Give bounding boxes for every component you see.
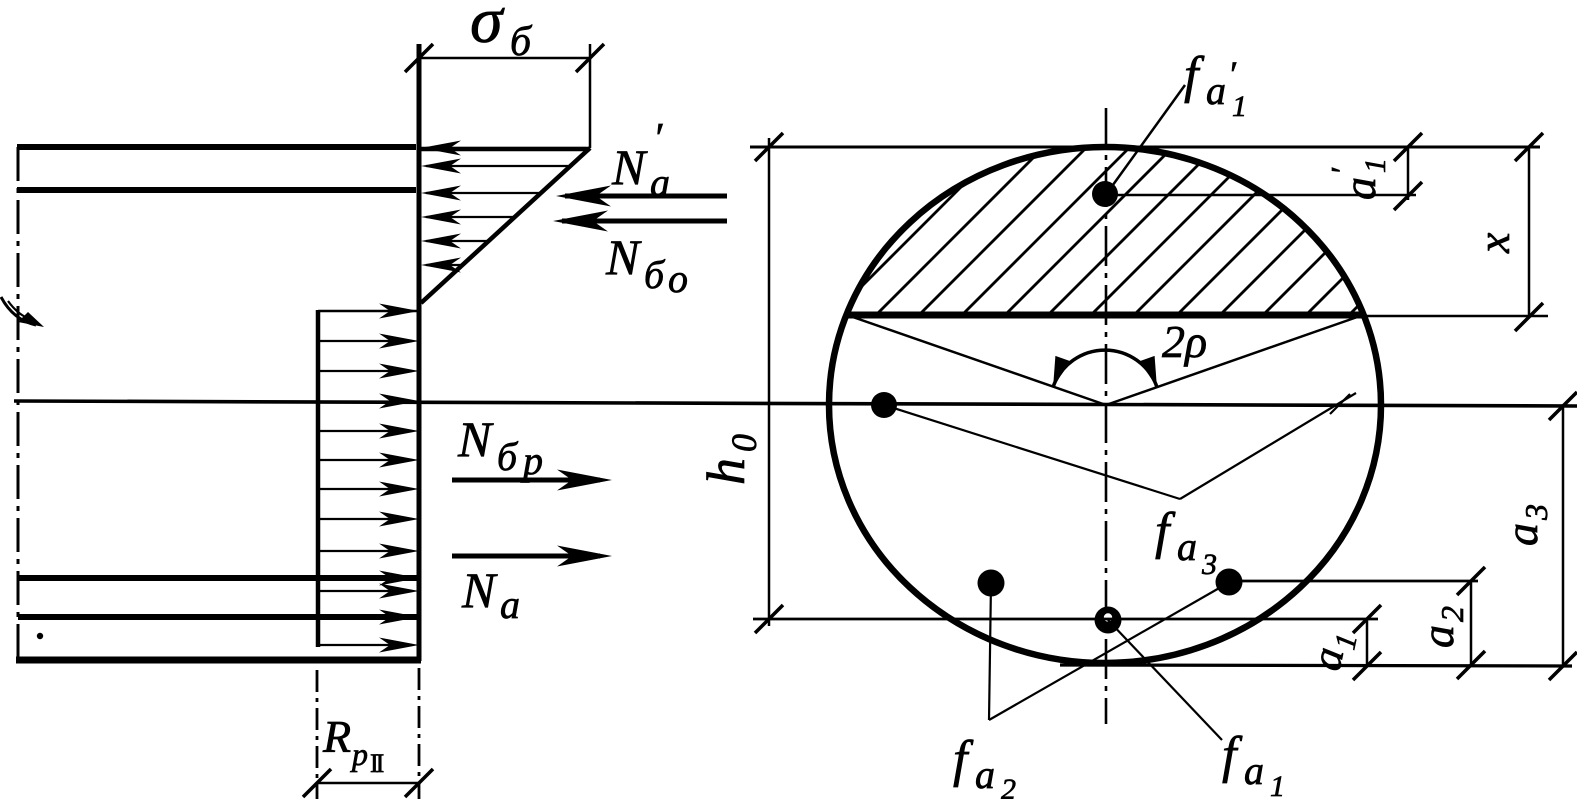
beam lower reinforcement line 2	[18, 614, 419, 620]
svg-text:f: f	[1222, 727, 1243, 784]
beam lower reinforcement line 1	[18, 575, 419, 581]
svg-text:о: о	[668, 256, 688, 301]
stress arrow (block) 5	[318, 488, 412, 490]
dimension a1: bottom tick	[1353, 652, 1381, 680]
dimension R_pII: right tick	[405, 769, 433, 797]
dimension a2: bottom tick	[1457, 651, 1485, 679]
dimension sigma_b: left tick	[405, 44, 433, 72]
svg-text:f: f	[1155, 503, 1176, 560]
svg-text:N: N	[457, 411, 494, 467]
stress arrow (triangle) 2	[426, 165, 568, 167]
vertical centre line of section	[1105, 108, 1108, 724]
stress arrow (triangle) 4	[426, 216, 514, 218]
force arrow N_bo	[562, 219, 727, 224]
force arrow N_br	[452, 478, 600, 483]
svg-text:N: N	[605, 229, 642, 285]
svg-text:a: a	[1496, 523, 1547, 546]
svg-text:a: a	[1244, 748, 1264, 793]
label a3	[1496, 504, 1554, 546]
svg-text:a: a	[1412, 625, 1463, 648]
force arrow N'a	[565, 194, 727, 199]
dimension a2: top tick	[1457, 567, 1485, 595]
compression triangle hypotenuse	[421, 148, 590, 303]
radius line to right chord end	[1106, 315, 1363, 405]
dimension a3: top tick	[1549, 392, 1577, 420]
label a1	[1301, 626, 1364, 676]
circle outline of cross-section	[829, 147, 1381, 663]
leader fa2 diagonal from right bar	[989, 583, 1228, 720]
radius line to left chord end	[847, 315, 1106, 405]
rebar dot f'a1 (top)	[1092, 181, 1118, 207]
svg-text:′: ′	[653, 116, 663, 162]
rebar dot fa3 left	[871, 392, 897, 418]
beam left break (dash-dot) line	[17, 147, 20, 660]
dimension x: top tick	[1515, 133, 1543, 161]
leader f'a1	[1110, 85, 1185, 189]
stress arrow (triangle) 3	[426, 192, 540, 194]
dimension a1: top tick	[1353, 605, 1381, 633]
tick at right fa3 point	[1330, 394, 1350, 414]
small speck on beam	[37, 633, 43, 639]
dimension a'1: vertical line	[1407, 147, 1410, 200]
svg-text:f: f	[953, 731, 974, 788]
compression triangle top edge	[419, 147, 590, 152]
dimension h0: vertical line	[768, 138, 771, 626]
label a2	[1412, 606, 1470, 648]
stress arrow (block) 7	[318, 550, 412, 552]
dimension a2: level line through lower bars	[1232, 580, 1478, 583]
dimension a'1: bottom tick	[1394, 182, 1422, 210]
stress arrow on reinforcement line 1	[379, 571, 419, 586]
leader fa2 vertical from left bar	[989, 583, 991, 720]
angle arc arrow right	[1140, 356, 1157, 387]
rebar dot fa2 right	[1216, 569, 1243, 596]
hatching of compression zone	[700, 0, 1577, 315]
dimension h0: top tick	[755, 133, 783, 161]
dimension a3: vertical line	[1562, 406, 1565, 667]
angle arc arrow left	[1053, 356, 1070, 387]
svg-text:a: a	[1206, 68, 1226, 113]
dimension sigma_b: right tick	[576, 44, 604, 72]
dimension R_pII: left extension line	[316, 670, 319, 799]
angle arc 2rho	[1053, 350, 1157, 387]
svg-text:2: 2	[1434, 606, 1470, 622]
svg-text:a: a	[500, 582, 520, 627]
svg-text:p: p	[350, 736, 368, 772]
dimension h0: bottom tick	[755, 605, 783, 633]
svg-text:3: 3	[1518, 504, 1554, 521]
svg-text:f: f	[1184, 47, 1205, 104]
svg-text:2ρ: 2ρ	[1162, 316, 1207, 367]
stress arrow (block) 2	[318, 370, 412, 372]
svg-text:h: h	[696, 458, 756, 485]
stress arrow (block) 3	[318, 430, 412, 432]
rebar dot fa2 left	[978, 570, 1005, 597]
dimension R_pII: dimension line	[317, 782, 419, 785]
stress zero vertical line	[417, 44, 422, 661]
stress arrow (triangle) 6	[426, 264, 462, 266]
dimension line through fa1 level (h0 bottom / a1 top)	[753, 618, 1378, 621]
svg-text:x: x	[1468, 232, 1519, 254]
dimension a2: vertical line	[1470, 581, 1473, 665]
top dimension line	[750, 146, 1540, 149]
dimension a'1: level line through top bar	[1112, 194, 1416, 197]
dimension R_pII: right extension line	[418, 668, 421, 799]
svg-text:р: р	[520, 438, 543, 483]
stress arrow (block) 6	[318, 518, 412, 520]
beam bottom edge	[16, 657, 421, 664]
svg-text:a: a	[1177, 524, 1197, 569]
svg-text:R: R	[322, 711, 351, 762]
dimension x: bottom tick	[1515, 303, 1543, 331]
svg-text:′: ′	[1324, 167, 1360, 175]
dimension sigma_b: right extension line	[589, 44, 592, 148]
svg-text:1: 1	[1359, 158, 1392, 173]
rebar ring fa1 (bottom centre)	[1095, 607, 1122, 634]
leader arrow at beam left break	[1, 297, 36, 325]
leader fa3 from right point	[1180, 393, 1356, 499]
wire: main horizontal centre axis across whole figure	[14, 401, 1577, 406]
dimension sigma_b: dimension line	[419, 57, 590, 60]
dimension a1: vertical line	[1366, 619, 1369, 666]
stress arrow (block) 8	[318, 590, 412, 592]
chord: bottom of compression zone	[845, 312, 1363, 319]
dimension a'1: top tick	[1394, 133, 1422, 161]
svg-text:a: a	[975, 752, 995, 797]
label x	[1468, 232, 1519, 254]
svg-text:б: б	[644, 252, 666, 297]
dimension a3: bottom tick	[1549, 652, 1577, 680]
dimension R_pII: left tick	[303, 769, 331, 797]
svg-text:′: ′	[1228, 54, 1237, 94]
label a'1	[1324, 158, 1392, 200]
stress arrow (block) 9	[318, 644, 412, 646]
svg-text:II: II	[370, 749, 384, 778]
stress arrow (block) 1	[318, 340, 412, 342]
svg-text:1: 1	[1232, 90, 1247, 123]
leader fa3 from left bar	[884, 405, 1180, 499]
svg-text:N: N	[461, 562, 498, 618]
stress arrow (triangle) 5	[426, 240, 488, 242]
bottom tangent dimension line	[1060, 665, 1572, 666]
svg-text:N: N	[611, 139, 648, 195]
chord extension line to x dimension	[1363, 315, 1548, 318]
leader fa1	[1108, 620, 1222, 740]
stress arrow (triangle) 1	[426, 147, 586, 149]
tension block left edge	[316, 310, 321, 647]
tension block top edge with arrow	[318, 310, 419, 313]
svg-text:б: б	[510, 19, 533, 65]
beam top edge	[17, 144, 416, 150]
svg-text:σ: σ	[470, 0, 505, 57]
svg-text:б: б	[497, 434, 519, 479]
stress arrow (block) 4	[318, 459, 412, 461]
label h0	[696, 434, 764, 485]
stress arrow on reinforcement line 2	[379, 610, 419, 625]
force arrow N_a	[452, 554, 600, 559]
stress arrow on centre axis	[379, 394, 419, 409]
svg-text:3: 3	[1201, 548, 1217, 581]
dimension x: vertical line	[1528, 147, 1531, 318]
svg-text:0: 0	[724, 434, 764, 452]
beam top reinforcement line	[17, 187, 416, 193]
svg-text:1: 1	[1270, 770, 1285, 799]
svg-text:2: 2	[1001, 773, 1016, 799]
svg-text:a: a	[1334, 177, 1385, 200]
